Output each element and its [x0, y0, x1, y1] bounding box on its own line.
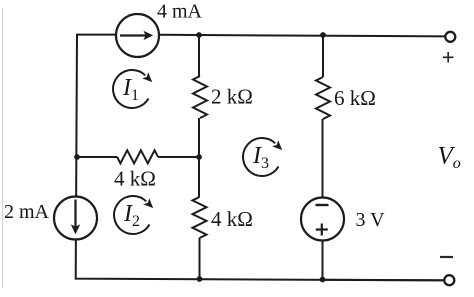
svg-text:4 mA: 4 mA — [157, 1, 203, 23]
svg-text:4 kΩ: 4 kΩ — [211, 207, 253, 231]
svg-text:2 kΩ: 2 kΩ — [211, 85, 253, 109]
svg-text:4 kΩ: 4 kΩ — [114, 167, 156, 191]
svg-text:2 mA: 2 mA — [4, 201, 50, 223]
svg-text:6 kΩ: 6 kΩ — [334, 86, 376, 110]
svg-text:3 V: 3 V — [356, 209, 386, 231]
